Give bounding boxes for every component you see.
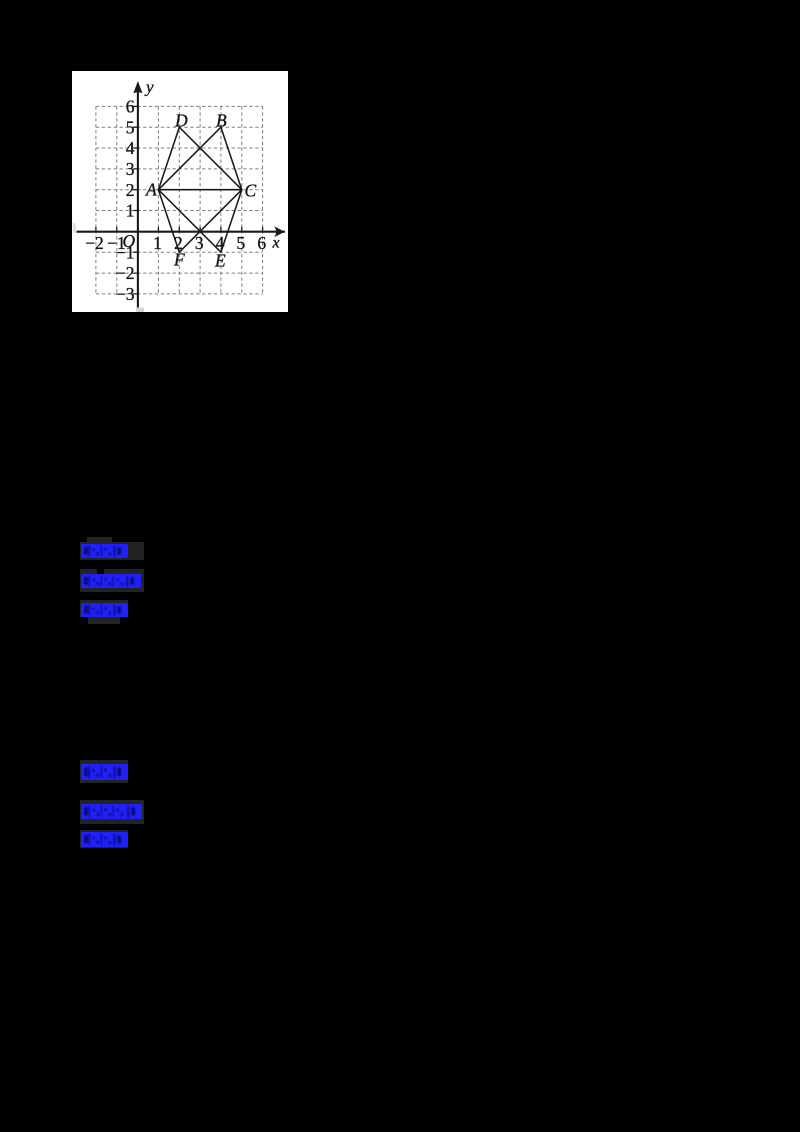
segment A-D	[158, 127, 179, 190]
segment B-C	[221, 127, 242, 190]
svg-text:2: 2	[126, 180, 135, 200]
svg-text:6: 6	[257, 233, 266, 253]
svg-text:−2: −2	[85, 233, 104, 253]
axis ticks	[96, 106, 263, 294]
knowledge label 知识点 group2 gray panel	[80, 800, 144, 824]
x-axis	[77, 90, 286, 309]
graph panel	[72, 71, 288, 312]
svg-text:y: y	[144, 78, 154, 97]
svg-text:C: C	[245, 181, 257, 201]
segment A-C	[158, 189, 241, 191]
svg-text:−2: −2	[116, 263, 135, 283]
triangle lines	[158, 127, 241, 252]
analysis label 解析 group2 blue text	[81, 832, 128, 852]
svg-text:B: B	[216, 111, 227, 131]
svg-text:4: 4	[126, 138, 135, 158]
svg-text:5: 5	[126, 117, 135, 137]
y-axis	[137, 90, 139, 309]
svg-text:5: 5	[237, 233, 246, 253]
labels	[85, 78, 279, 304]
knowledge label 知识点 group2 blue text	[81, 804, 142, 824]
analysis label 解析 group1 gray panel	[80, 600, 128, 617]
y-axis arrowhead	[133, 81, 142, 93]
svg-text:F: F	[173, 250, 185, 270]
svg-text:D: D	[174, 111, 188, 131]
svg-text:3: 3	[126, 159, 135, 179]
svg-text:6: 6	[126, 97, 135, 117]
svg-text:1: 1	[126, 201, 135, 221]
analysis label 解析 group1 blue text	[81, 603, 128, 622]
knowledge label 知识点 group1 gray panel	[80, 569, 144, 592]
grid horizontal dashed lines	[96, 106, 263, 294]
svg-text:O: O	[123, 231, 136, 251]
svg-text:1: 1	[153, 233, 162, 253]
segment F-C	[179, 190, 242, 253]
answer label 答案 group1 gray halo	[87, 537, 112, 544]
segment A-F	[158, 190, 179, 253]
segment A-B	[158, 127, 221, 190]
svg-text:E: E	[214, 251, 226, 271]
analysis label 解析 group2 gray panel	[80, 830, 128, 848]
answer label 答案 group1 blue text	[81, 544, 128, 563]
segment A-E	[158, 190, 221, 253]
segment D-C	[179, 127, 242, 190]
x-axis arrowhead	[274, 226, 285, 237]
scan artifact bottom	[136, 308, 144, 313]
svg-text:A: A	[145, 180, 157, 200]
svg-text:−3: −3	[116, 284, 135, 304]
answer label 答案 group2 gray panel	[80, 760, 128, 783]
scan artifact left edge	[73, 223, 76, 233]
grid vertical dashed lines	[96, 106, 263, 294]
answer label 答案 group2 blue text	[81, 764, 128, 785]
segment E-C	[221, 190, 242, 253]
knowledge label 知识点 group1 blue text	[81, 574, 141, 593]
svg-text:x: x	[272, 235, 280, 252]
svg-text:3: 3	[195, 233, 204, 253]
